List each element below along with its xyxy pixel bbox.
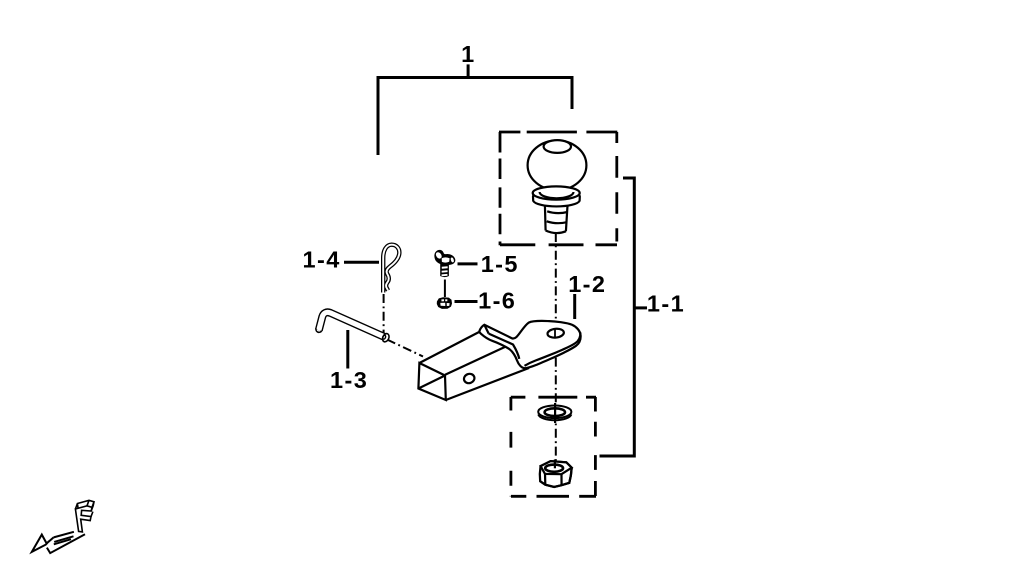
svg-text:1-6: 1-6 (478, 288, 516, 314)
svg-text:1-4: 1-4 (303, 246, 341, 272)
svg-text:1-2: 1-2 (568, 271, 606, 297)
svg-text:1: 1 (461, 41, 474, 67)
svg-text:1-3: 1-3 (330, 367, 368, 393)
svg-text:1-5: 1-5 (481, 251, 519, 277)
svg-text:1-1: 1-1 (647, 291, 685, 317)
